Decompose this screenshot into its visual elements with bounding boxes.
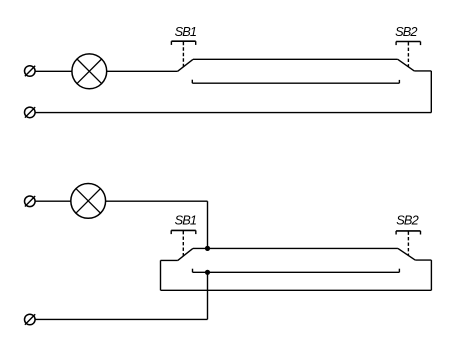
svg-text:SB1: SB1 [175,213,197,228]
svg-text:SB2: SB2 [396,213,418,228]
svg-text:SB2: SB2 [395,24,417,39]
svg-text:SB1: SB1 [175,24,197,39]
